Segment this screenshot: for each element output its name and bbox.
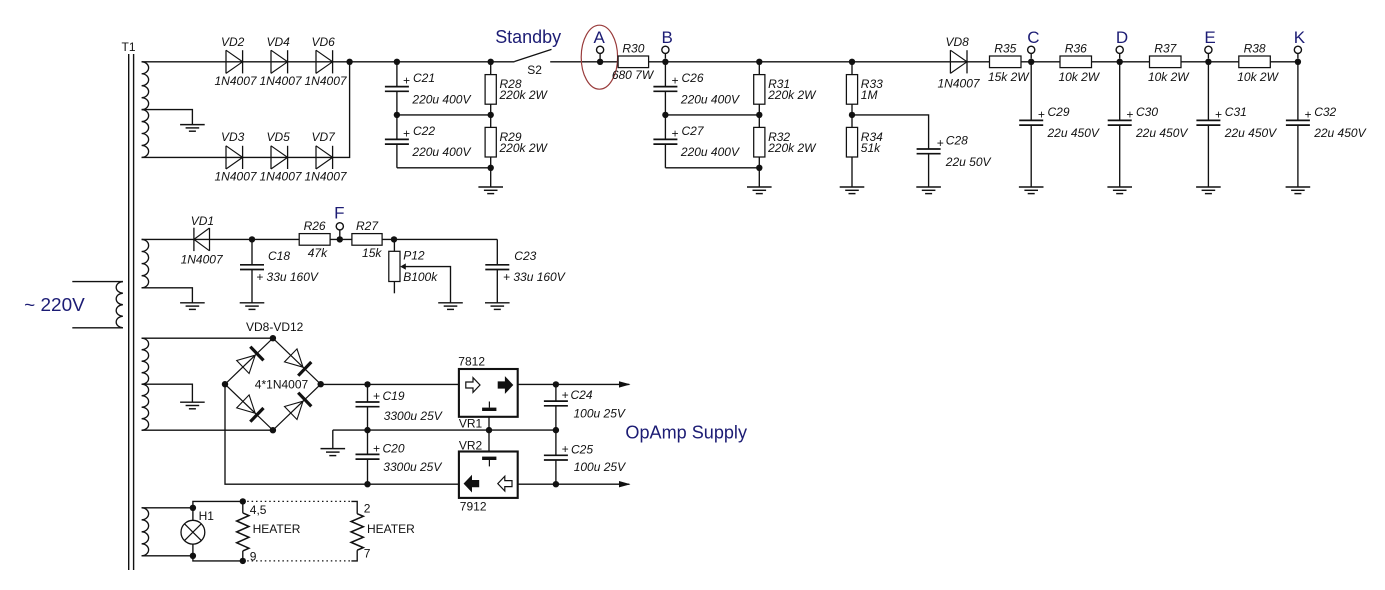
svg-text:+: + xyxy=(1304,107,1311,121)
wire R31-R32 xyxy=(758,104,760,127)
resistor R28 xyxy=(485,62,496,104)
ground under C28 xyxy=(916,154,941,194)
label heater1 pin 9 xyxy=(250,549,257,563)
transformer T1 core xyxy=(129,54,134,570)
capacitor C22 xyxy=(385,139,409,144)
node C label xyxy=(1027,28,1039,47)
svg-text:1N4007: 1N4007 xyxy=(260,74,303,88)
wire winding3 top to bridge xyxy=(142,337,273,339)
capacitor C23 xyxy=(485,265,509,270)
label C22 value xyxy=(411,145,471,159)
junction bridge right xyxy=(318,381,324,387)
svg-text:10k 2W: 10k 2W xyxy=(1148,70,1190,84)
label OpAmp Supply xyxy=(625,422,747,442)
node D terminal xyxy=(1116,46,1123,58)
svg-text:VD5: VD5 xyxy=(267,130,291,144)
svg-text:C20: C20 xyxy=(383,441,405,455)
svg-text:E: E xyxy=(1204,28,1215,47)
label R33 value xyxy=(861,88,878,102)
transformer secondary winding 1 xyxy=(142,62,149,158)
svg-text:B: B xyxy=(662,28,673,47)
regulator VR1 box xyxy=(459,369,518,417)
node B label xyxy=(662,28,673,47)
VR2 input arrow xyxy=(498,476,512,491)
wire R33-R34 xyxy=(851,104,853,127)
capacitor C32 xyxy=(1286,120,1310,125)
label P12 xyxy=(403,248,425,262)
bridge diode bottom-left xyxy=(237,395,264,422)
label C19 xyxy=(383,389,405,403)
svg-text:22u 450V: 22u 450V xyxy=(1135,126,1188,140)
resistor R33 xyxy=(846,62,857,104)
potentiometer P12 xyxy=(389,251,400,281)
label bridge value 4*1N4007 xyxy=(255,377,309,391)
svg-text:7812: 7812 xyxy=(458,354,485,368)
capacitor C19 xyxy=(356,402,380,407)
label R28 xyxy=(500,77,522,91)
label H1 xyxy=(199,509,215,523)
ground under wiper xyxy=(438,303,463,310)
svg-text:VD2: VD2 xyxy=(221,35,245,49)
bridge diode bottom-right xyxy=(285,393,312,420)
svg-text:1N4007: 1N4007 xyxy=(215,170,258,184)
svg-text:VD6: VD6 xyxy=(312,35,336,49)
svg-text:VD1: VD1 xyxy=(191,214,214,228)
label C31 plus xyxy=(1215,107,1222,121)
label C22 plus xyxy=(403,126,410,140)
resistor R34 xyxy=(846,127,857,157)
junction rectifier output xyxy=(346,59,352,65)
label VD7 xyxy=(312,130,337,144)
svg-text:220u 400V: 220u 400V xyxy=(680,92,740,106)
svg-text:C23: C23 xyxy=(514,249,536,263)
svg-text:C24: C24 xyxy=(571,388,593,402)
node C terminal xyxy=(1028,46,1035,58)
svg-text:1N4007: 1N4007 xyxy=(181,253,224,267)
node E label xyxy=(1204,28,1215,47)
junction mid2 right xyxy=(756,112,762,118)
svg-text:+: + xyxy=(403,74,410,88)
svg-text:C31: C31 xyxy=(1225,105,1247,119)
junction VR common xyxy=(486,427,492,433)
svg-text:H1: H1 xyxy=(199,509,215,523)
svg-text:HEATER: HEATER xyxy=(253,522,301,536)
resistor R27 xyxy=(352,234,382,246)
svg-text:A: A xyxy=(594,28,606,47)
svg-text:+: + xyxy=(1038,107,1045,121)
label R30 xyxy=(622,42,644,56)
wire to C23 xyxy=(496,239,498,264)
junction C18 top xyxy=(249,236,255,242)
ground under C31 xyxy=(1196,125,1221,194)
junction bridge bottom xyxy=(270,427,276,433)
svg-text:220k 2W: 220k 2W xyxy=(767,141,817,155)
transformer heater winding xyxy=(142,508,149,556)
junction R31 top xyxy=(756,59,762,65)
svg-text:10k 2W: 10k 2W xyxy=(1237,70,1279,84)
label Standby xyxy=(495,27,561,47)
heater resistor 1 xyxy=(237,501,249,561)
node B junction xyxy=(662,59,668,65)
wire row1 rail right xyxy=(550,61,1298,63)
svg-text:P12: P12 xyxy=(403,248,425,262)
junction C21 top xyxy=(394,59,400,65)
svg-text:F: F xyxy=(334,204,344,223)
svg-text:D: D xyxy=(1116,28,1128,47)
pot P12 wiper xyxy=(400,263,406,269)
wire heater top riser xyxy=(193,501,243,507)
label C27 xyxy=(682,124,705,138)
dotted wire heater bottom xyxy=(243,560,352,562)
label R36 xyxy=(1065,42,1087,56)
label R31 xyxy=(768,77,790,91)
label C18 xyxy=(268,249,290,263)
label C20 xyxy=(383,441,405,455)
junction C19 bottom xyxy=(364,427,370,433)
svg-text:VR2: VR2 xyxy=(459,439,483,453)
node E junction xyxy=(1205,59,1211,65)
svg-text:1N4007: 1N4007 xyxy=(305,74,348,88)
label R34 value xyxy=(861,141,881,155)
wire C25 leads xyxy=(555,430,557,484)
svg-text:VD7: VD7 xyxy=(312,130,337,144)
wire VR1 to mid rail xyxy=(488,417,490,430)
junction C24 bottom xyxy=(553,427,559,433)
ground under R29 xyxy=(478,168,503,194)
label heater2 pin 2 xyxy=(364,502,371,516)
wire C21 to mid xyxy=(396,91,398,115)
label P12 value xyxy=(403,270,438,284)
label C28 xyxy=(946,134,968,148)
resistor R29 xyxy=(485,127,496,157)
label 7912 xyxy=(460,500,487,514)
svg-text:C19: C19 xyxy=(383,389,405,403)
svg-text:3300u 25V: 3300u 25V xyxy=(383,460,442,474)
svg-text:47k: 47k xyxy=(308,246,328,260)
resistor R30 xyxy=(618,56,649,68)
label C20 value xyxy=(383,460,442,474)
svg-text:220u 400V: 220u 400V xyxy=(411,145,471,159)
label C32 value xyxy=(1313,126,1366,140)
ground winding2 xyxy=(180,303,205,310)
svg-text:+: + xyxy=(373,389,380,403)
dotted wire heater top xyxy=(243,500,352,502)
transformer secondary winding 3 xyxy=(142,338,149,430)
svg-text:220k 2W: 220k 2W xyxy=(499,141,549,155)
label C21 xyxy=(413,71,435,85)
resistor R31 xyxy=(754,62,765,104)
wire C26 lead xyxy=(664,62,666,87)
label R36 value xyxy=(1058,70,1100,84)
wire primary bottom lead xyxy=(72,327,123,329)
svg-text:C: C xyxy=(1027,28,1039,47)
diode VD7 xyxy=(316,146,333,169)
svg-text:100u 25V: 100u 25V xyxy=(574,407,626,421)
diode VD6 xyxy=(316,50,333,73)
svg-text:220k 2W: 220k 2W xyxy=(767,88,817,102)
wire row1 bottom rail 1 xyxy=(397,167,491,169)
node B terminal xyxy=(662,46,669,58)
svg-text:B100k: B100k xyxy=(403,270,438,284)
wire +12V output xyxy=(518,383,630,385)
label R37 xyxy=(1154,42,1177,56)
svg-text:C30: C30 xyxy=(1136,105,1158,119)
label VD8 value 1N4007 xyxy=(938,77,981,91)
VR1 input arrow xyxy=(466,378,480,393)
wire winding3 bottom to bridge xyxy=(142,429,273,431)
diode VD2 xyxy=(226,50,243,73)
svg-text:51k: 51k xyxy=(861,141,881,155)
label VD5 value 1N4007 xyxy=(260,170,303,184)
label C25 xyxy=(571,442,593,456)
node F label xyxy=(334,204,344,223)
label C23 value xyxy=(503,270,566,284)
svg-text:C32: C32 xyxy=(1314,105,1336,119)
wire winding2 bottom xyxy=(142,288,193,303)
label R35 xyxy=(994,42,1016,56)
label C25 plus xyxy=(562,442,569,456)
label C27 value xyxy=(680,145,740,159)
capacitor C27 xyxy=(653,139,677,144)
regulator VR2 box xyxy=(459,452,518,498)
svg-text:C27: C27 xyxy=(682,124,705,138)
VR1 ground pin symbol xyxy=(482,402,496,412)
svg-text:R26: R26 xyxy=(304,219,326,233)
junction P12 top xyxy=(391,236,397,242)
wire C22 leads xyxy=(396,115,398,168)
svg-text:1N4007: 1N4007 xyxy=(260,170,303,184)
wire C24 leads xyxy=(555,384,557,430)
svg-text:1M: 1M xyxy=(861,88,878,102)
wire row1 mid rail 2 xyxy=(665,114,759,116)
label C32 plus xyxy=(1304,107,1311,121)
node A terminal xyxy=(597,46,604,62)
svg-text:680 7W: 680 7W xyxy=(612,68,655,82)
bridge diode top-right xyxy=(285,349,312,376)
capacitor C30 xyxy=(1108,120,1132,125)
label C30 value xyxy=(1135,126,1188,140)
label C29 xyxy=(1048,105,1070,119)
wire C21 lead xyxy=(396,62,398,87)
label VD2 value 1N4007 xyxy=(215,74,258,88)
label HEATER 1 xyxy=(253,522,301,536)
label C28 plus xyxy=(937,136,944,150)
wire C26 to mid xyxy=(664,91,666,115)
highlight ellipse node A xyxy=(581,25,617,89)
label R29 value xyxy=(499,141,549,155)
svg-text:R27: R27 xyxy=(356,219,379,233)
lamp H1 xyxy=(181,508,205,556)
svg-text:220u 400V: 220u 400V xyxy=(411,92,471,106)
label R37 value xyxy=(1148,70,1190,84)
svg-text:+: + xyxy=(562,442,569,456)
wire heater bottom xyxy=(142,555,193,557)
label C29 plus xyxy=(1038,107,1045,121)
bridge VD8-VD12 outline xyxy=(225,338,321,430)
svg-text:OpAmp Supply: OpAmp Supply xyxy=(625,422,747,442)
label VD2 xyxy=(221,35,245,49)
wire C31 lead xyxy=(1207,62,1209,121)
node D label xyxy=(1116,28,1128,47)
svg-text:+: + xyxy=(403,126,410,140)
bridge diode top-left xyxy=(237,347,264,374)
label C21 plus xyxy=(403,74,410,88)
arrow -12V output xyxy=(619,481,631,487)
ground center tap winding1 xyxy=(180,125,205,132)
wire heater bottom riser xyxy=(193,556,243,561)
svg-text:C29: C29 xyxy=(1048,105,1070,119)
svg-text:7: 7 xyxy=(364,547,371,561)
junction mid left xyxy=(394,112,400,118)
label VR1 xyxy=(459,417,483,431)
svg-text:T1: T1 xyxy=(122,40,136,54)
label C19 plus xyxy=(373,389,380,403)
label VD1 value 1N4007 xyxy=(181,253,224,267)
label R27 xyxy=(356,219,379,233)
label C31 value xyxy=(1224,126,1277,140)
svg-text:1N4007: 1N4007 xyxy=(938,77,981,91)
svg-text:C25: C25 xyxy=(571,442,593,456)
wire row3 mid rail xyxy=(333,429,556,431)
label R32 xyxy=(768,130,790,144)
wire VR2 to mid rail xyxy=(488,430,490,451)
wire R29 bottom xyxy=(490,157,492,168)
svg-text:22u 50V: 22u 50V xyxy=(945,155,992,169)
label C24 value xyxy=(574,407,626,421)
svg-text:R30: R30 xyxy=(622,42,644,56)
label C24 xyxy=(571,388,593,402)
label C27 plus xyxy=(671,126,678,140)
label C25 value xyxy=(574,460,626,474)
label R27 value xyxy=(362,246,382,260)
wire C27 leads xyxy=(664,115,666,168)
svg-text:100u 25V: 100u 25V xyxy=(574,460,626,474)
label R32 value xyxy=(767,141,817,155)
wire -12V output xyxy=(518,483,630,485)
resistor R38 xyxy=(1239,56,1271,68)
ground under C23 xyxy=(485,270,510,310)
capacitor C21 xyxy=(385,87,409,92)
arrow +12V output xyxy=(619,381,631,387)
svg-text:+: + xyxy=(373,441,380,455)
label R26 xyxy=(304,219,326,233)
wire primary top lead xyxy=(72,281,123,283)
junction bridge top xyxy=(270,335,276,341)
svg-text:2: 2 xyxy=(364,502,371,516)
svg-text:R38: R38 xyxy=(1244,42,1266,56)
label 7812 xyxy=(458,354,485,368)
label heater2 pin 7 xyxy=(364,547,371,561)
label R28 value xyxy=(499,88,549,102)
label C26 plus xyxy=(671,74,678,88)
svg-text:C21: C21 xyxy=(413,71,435,85)
transformer secondary winding 2 xyxy=(142,239,149,287)
label VD6 xyxy=(312,35,336,49)
wire row1 top rail left xyxy=(142,61,515,63)
capacitor C20 xyxy=(356,454,380,459)
transformer T1 label xyxy=(122,40,136,54)
wire row1 lower diode wire xyxy=(142,62,350,158)
resistor R37 xyxy=(1150,56,1182,68)
diode VD5 xyxy=(271,146,288,169)
wire C32 lead xyxy=(1297,62,1299,121)
node A label xyxy=(594,28,606,47)
svg-text:VD8: VD8 xyxy=(946,35,970,49)
ground under C32 xyxy=(1286,125,1311,194)
svg-text:C18: C18 xyxy=(268,249,290,263)
wire bridge minus down xyxy=(225,384,459,484)
resistor R35 xyxy=(990,56,1022,68)
svg-text:VD4: VD4 xyxy=(267,35,291,49)
label VD4 value 1N4007 xyxy=(260,74,303,88)
label C31 xyxy=(1225,105,1247,119)
wire wiper to ground xyxy=(406,267,451,303)
node D junction xyxy=(1117,59,1123,65)
label VD8-VD12 xyxy=(246,320,304,334)
svg-text:22u 450V: 22u 450V xyxy=(1047,126,1100,140)
wire P12 bottom stub xyxy=(393,282,395,294)
svg-text:22u 450V: 22u 450V xyxy=(1224,126,1277,140)
junction mid right xyxy=(488,112,494,118)
wire C20 leads xyxy=(367,430,369,484)
wire mid to C28 xyxy=(852,115,929,149)
ground under R32 xyxy=(747,168,772,194)
wire P12 top lead xyxy=(393,239,395,251)
svg-text:R35: R35 xyxy=(994,42,1016,56)
node F terminal xyxy=(336,223,343,240)
label C18 value xyxy=(256,270,319,284)
svg-text:+: + xyxy=(671,126,678,140)
diode VD4 xyxy=(271,50,288,73)
svg-text:+ 33u 160V: + 33u 160V xyxy=(256,270,319,284)
svg-text:VR1: VR1 xyxy=(459,417,483,431)
svg-text:C28: C28 xyxy=(946,134,968,148)
svg-text:VD8-VD12: VD8-VD12 xyxy=(246,320,304,334)
svg-text:+: + xyxy=(1215,107,1222,121)
svg-text:4,5: 4,5 xyxy=(250,503,267,517)
capacitor C24 xyxy=(544,401,568,406)
label C26 xyxy=(682,71,704,85)
svg-text:15k: 15k xyxy=(362,246,382,260)
svg-text:S2: S2 xyxy=(527,63,542,77)
label heater1 pins 4,5 xyxy=(250,503,267,517)
label VD7 value 1N4007 xyxy=(305,170,348,184)
wire winding3 center tap xyxy=(142,384,193,402)
label R34 xyxy=(861,130,883,144)
wire winding1 center tap xyxy=(142,110,193,125)
ground under C29 xyxy=(1019,125,1044,194)
svg-text:+: + xyxy=(562,388,569,402)
svg-text:C22: C22 xyxy=(413,124,435,138)
label VD5 xyxy=(267,130,291,144)
label R38 value xyxy=(1237,70,1279,84)
label ~220V mains xyxy=(24,295,85,315)
svg-text:15k 2W: 15k 2W xyxy=(988,70,1030,84)
wire row1 bottom rail 2 xyxy=(665,167,759,169)
label C21 value xyxy=(411,92,471,106)
svg-text:+: + xyxy=(1126,107,1133,121)
wire C29 lead xyxy=(1030,62,1032,121)
label C30 xyxy=(1136,105,1158,119)
capacitor C29 xyxy=(1019,120,1043,125)
label VD6 value 1N4007 xyxy=(305,74,348,88)
capacitor C28 xyxy=(917,149,941,154)
node E terminal xyxy=(1205,46,1212,58)
wire R32 bottom xyxy=(758,157,760,168)
svg-text:220u 400V: 220u 400V xyxy=(680,145,740,159)
label S2 xyxy=(527,63,542,77)
label C26 value xyxy=(680,92,740,106)
